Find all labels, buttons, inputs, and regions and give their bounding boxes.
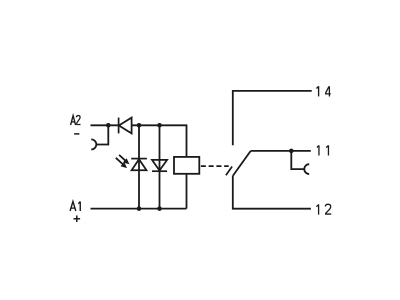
wire drop from A2 junction to socket hook xyxy=(96,125,108,144)
mechanical link (dashed) coil to contact xyxy=(201,165,229,167)
plus sign under A1 xyxy=(74,215,81,222)
wire diode anode to corner, down to coil top xyxy=(132,125,187,157)
actuator tick on movable contact xyxy=(226,167,232,176)
wire A2 to diode cathode xyxy=(91,124,119,126)
wire LED branch vertical xyxy=(138,125,140,208)
label A1 xyxy=(70,201,80,211)
socket contact (female) at A2 branch xyxy=(91,139,96,149)
node junction top of freewheel branch xyxy=(157,123,162,128)
wire drop from 11 junction to socket hook xyxy=(291,151,304,169)
wire terminal 14 branch (NO), open end xyxy=(233,91,312,145)
wire freewheel diode branch vertical xyxy=(159,125,161,208)
diode V1 (reverse polarity protection) xyxy=(119,118,132,134)
node junction top of LED branch xyxy=(137,123,142,128)
wire coil bottom to bottom rail xyxy=(186,174,188,209)
node junction on A2 wire xyxy=(106,123,111,128)
node junction on 11 wire xyxy=(289,149,294,154)
LED arrow upper xyxy=(119,155,129,164)
label 12 xyxy=(316,204,331,214)
LED indicator xyxy=(131,159,147,171)
label 14 xyxy=(316,86,330,96)
relay coil K1 xyxy=(174,157,199,174)
movable contact blade xyxy=(233,151,251,176)
label A2 xyxy=(71,115,81,125)
node junction bottom of freewheel branch xyxy=(157,206,162,211)
freewheeling diode xyxy=(152,160,167,171)
wire pivot down to terminal 12 rail (NC) xyxy=(233,176,311,209)
label 11 xyxy=(317,145,329,155)
minus sign under A2 xyxy=(74,133,79,135)
socket contact (female) at 11 branch xyxy=(304,164,309,174)
LED arrow lower xyxy=(116,158,127,168)
node junction bottom of LED branch xyxy=(137,206,142,211)
wire common pole to terminal 11 xyxy=(251,150,311,152)
wire A1 bottom rail xyxy=(91,208,187,210)
